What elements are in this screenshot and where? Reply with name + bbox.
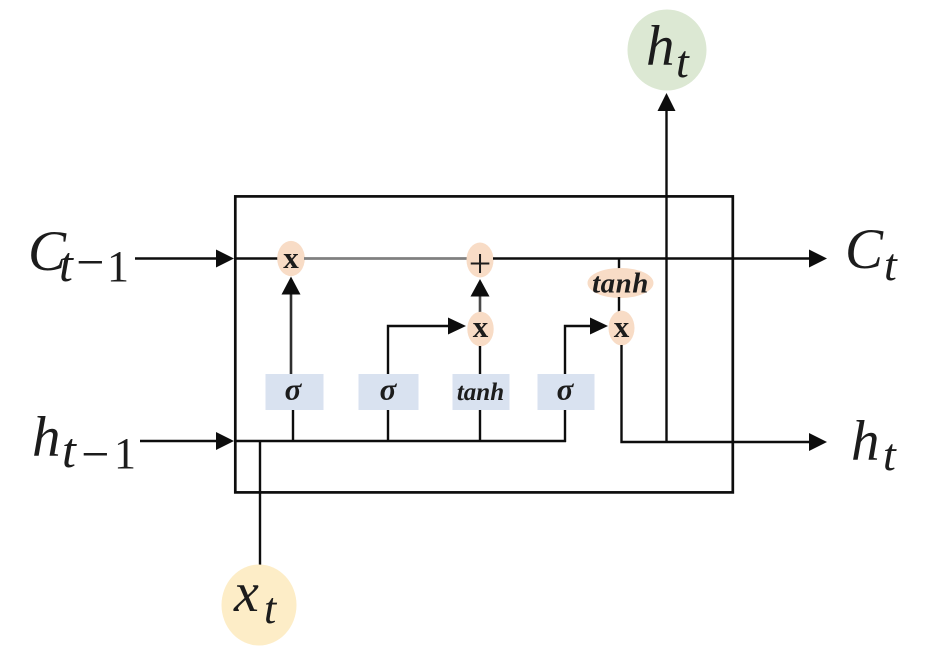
wire tanh ellipse to X3: [618, 297, 620, 312]
wire C inside right: [493, 257, 812, 259]
svg-text:tanh: tanh: [592, 268, 649, 300]
gate sigma1 box: [266, 372, 324, 411]
svg-text:Ct: Ct: [845, 218, 898, 290]
multiply node X2 (input gate product): [467, 309, 493, 346]
wire C inside left: [234, 257, 278, 259]
wire X2 down to tanh box: [479, 346, 481, 375]
wire h input: [140, 440, 219, 442]
wire sigma2 branch to X2: [388, 318, 466, 375]
gate sigma3 box: [538, 372, 595, 411]
wire tanh down: [479, 410, 481, 442]
input node x_t: [222, 562, 297, 646]
multiply node X1 (forget gate product): [277, 240, 305, 276]
arrowhead C input: [216, 250, 234, 268]
svg-text:x: x: [283, 240, 299, 275]
wire h inside: [234, 440, 566, 442]
wire sigma3 down: [564, 410, 566, 442]
svg-text:σ: σ: [380, 372, 398, 407]
svg-text:Ct−1: Ct−1: [28, 220, 129, 292]
wire h_t riser to top: [665, 110, 667, 442]
wire output h (X3 to right arrow): [622, 345, 813, 442]
arrowhead C output: [809, 250, 827, 268]
wire sigma2 down: [387, 410, 389, 442]
wire sigma3 branch to X3: [565, 318, 608, 375]
tanh ellipse (output activation): [588, 268, 654, 300]
arrow X2 to PLUS: [471, 279, 490, 313]
multiply node X3 (output gate product): [609, 309, 635, 345]
arrowhead h output: [809, 433, 827, 451]
wire C input: [135, 257, 219, 259]
LSTM cell box: [235, 196, 733, 492]
svg-text:ht−1: ht−1: [32, 406, 136, 482]
wire C line to tanh ellipse: [618, 258, 620, 269]
svg-text:tanh: tanh: [457, 379, 504, 406]
svg-text:σ: σ: [285, 372, 303, 407]
gate tanh box: [453, 374, 510, 410]
wire x_t riser: [259, 441, 261, 566]
svg-text:x: x: [614, 309, 630, 344]
arrowhead h_t top: [658, 93, 676, 111]
wire sigma1 down: [292, 410, 294, 442]
svg-text:σ: σ: [557, 372, 575, 407]
gate sigma2 box: [359, 372, 419, 411]
svg-text:x: x: [473, 309, 489, 344]
output node h_t top: [628, 10, 707, 91]
wire C grey segment: [304, 257, 467, 260]
svg-text:ht: ht: [851, 410, 897, 480]
arrowhead h input: [216, 432, 234, 450]
add node PLUS: [467, 241, 494, 286]
arrow sigma1 to X1: [282, 277, 301, 376]
